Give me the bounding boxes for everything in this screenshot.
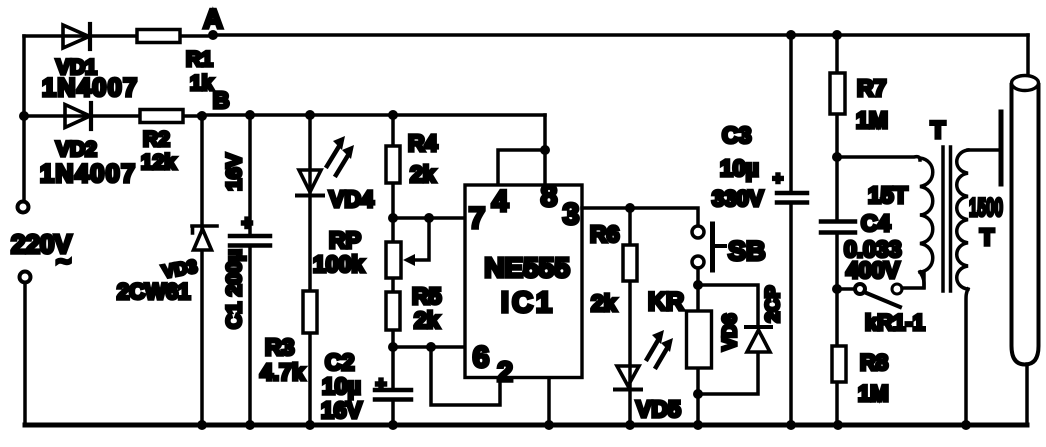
svg-text:R8: R8 <box>860 350 888 375</box>
relay contact kR1-1 <box>837 273 924 307</box>
svg-text:16V: 16V <box>223 153 246 190</box>
svg-text:10µ: 10µ <box>720 155 759 181</box>
junction dots B rail <box>245 110 398 120</box>
label 15T <box>868 182 908 208</box>
svg-text:330V: 330V <box>712 186 764 211</box>
wire second input line to VD2 <box>24 114 199 118</box>
label R3 <box>265 334 294 360</box>
junction pin3-R6 <box>625 203 635 213</box>
junction wiper tap <box>424 213 434 223</box>
svg-text:1M: 1M <box>856 107 888 133</box>
svg-text:15T: 15T <box>868 182 908 208</box>
diode VD6 <box>746 327 771 352</box>
junction C3 top <box>786 30 796 40</box>
potentiometer RP <box>386 242 401 278</box>
pin 2 label <box>497 356 513 387</box>
pushbutton SB contacts <box>692 226 704 268</box>
svg-text:1k: 1k <box>190 72 214 95</box>
svg-text:R5: R5 <box>412 283 442 309</box>
pin 6 label <box>473 341 490 374</box>
diode VD2 <box>65 103 91 129</box>
resistor R6 <box>623 245 637 281</box>
capacitor C1 rail wire <box>248 115 252 425</box>
svg-text:VD2: VD2 <box>56 138 97 161</box>
resistor R6 rail wire <box>628 208 632 425</box>
discharge tube bottom wire <box>1025 364 1029 425</box>
transformer T core <box>943 147 951 291</box>
node B rail wire <box>199 113 545 117</box>
label IC1 <box>501 287 555 319</box>
junction dots bottom rail <box>197 420 843 430</box>
svg-text:SB: SB <box>728 236 766 266</box>
LED VD4 <box>297 170 323 196</box>
resistor chain rail wire <box>391 115 395 347</box>
label 1500 <box>969 194 1003 222</box>
wire pin8 from node B <box>543 115 547 185</box>
label C1 200u rotated <box>223 249 246 329</box>
resistor R2 <box>140 110 183 123</box>
svg-text:C3: C3 <box>722 122 751 148</box>
label C3 plus <box>773 169 783 188</box>
svg-text:2k: 2k <box>591 290 617 316</box>
svg-text:1N4007: 1N4007 <box>40 160 137 188</box>
node A label <box>203 4 223 34</box>
svg-text:12k: 12k <box>141 151 176 174</box>
transformer T secondary bottom lead <box>966 289 968 425</box>
terminal lower 220V <box>20 272 31 283</box>
svg-text:C1 200µ: C1 200µ <box>223 249 246 329</box>
svg-text:C4: C4 <box>861 210 891 236</box>
svg-text:R4: R4 <box>408 130 438 156</box>
label R1 <box>186 48 213 71</box>
svg-text:1500: 1500 <box>969 194 1003 222</box>
svg-text:2k: 2k <box>410 161 436 187</box>
label 1k <box>190 72 214 95</box>
label VD2 <box>56 138 97 161</box>
wire lower terminal to bottom rail <box>23 283 27 425</box>
label 2k (R5) <box>414 307 440 333</box>
capacitor C3 rail wire <box>789 35 793 425</box>
svg-text:NE555: NE555 <box>484 252 570 283</box>
label C1 plus <box>242 213 253 233</box>
label R4 <box>408 130 438 156</box>
junction R4-RP <box>388 213 398 223</box>
VD4 light arrows <box>327 136 354 175</box>
label RP <box>329 227 361 253</box>
wire top rail to tube <box>1026 35 1030 76</box>
junction input split <box>19 111 29 121</box>
label 10u (C2) <box>322 373 361 399</box>
label 1M (R7) <box>856 107 888 133</box>
svg-text:2: 2 <box>497 356 513 387</box>
junction C4-R8-switch <box>832 284 842 294</box>
wire pin4 loop <box>498 150 545 185</box>
svg-text:1M: 1M <box>858 381 889 406</box>
resistor R7 rail wire <box>835 35 839 425</box>
node A top rail wire <box>213 33 1028 37</box>
svg-text:T: T <box>980 224 994 250</box>
label 330V <box>712 186 764 211</box>
wire SB to relay <box>696 268 700 285</box>
label NE555 <box>484 252 570 283</box>
label KR <box>648 288 684 316</box>
tube electrode bar <box>999 112 1004 184</box>
svg-text:3: 3 <box>563 198 580 231</box>
svg-text:2k: 2k <box>414 307 440 333</box>
LED VD4 rail wire <box>308 115 312 425</box>
label 400V <box>846 257 900 283</box>
svg-text:R3: R3 <box>265 334 294 360</box>
resistor R5 <box>386 292 400 330</box>
wire pin1 to ground rail <box>547 362 551 425</box>
svg-text:2CP: 2CP <box>763 285 784 322</box>
svg-text:A: A <box>203 4 223 34</box>
label R7 <box>857 75 886 101</box>
svg-text:100k: 100k <box>313 251 364 277</box>
label kR1-1 <box>865 310 925 335</box>
svg-text:1N4007: 1N4007 <box>42 74 139 102</box>
VD5 light arrows <box>647 330 673 367</box>
diode VD6 branch wire <box>698 285 758 394</box>
label 2CP rotated <box>763 285 784 322</box>
svg-text:+: + <box>242 213 253 233</box>
pushbutton SB actuator <box>713 224 726 270</box>
pin 8 label <box>541 180 558 213</box>
svg-text:6: 6 <box>473 341 490 374</box>
resistor R8 <box>832 346 846 382</box>
svg-text:VD5: VD5 <box>636 396 681 422</box>
svg-text:4: 4 <box>492 185 509 218</box>
svg-text:R2: R2 <box>143 128 170 151</box>
diode VD1 <box>63 24 90 49</box>
node A junction dot <box>208 30 218 40</box>
label VD1 <box>56 56 97 79</box>
label 16V rotated (C1) <box>223 153 246 190</box>
pin 3 label <box>563 198 580 231</box>
label VD4 <box>329 186 374 212</box>
svg-text:B: B <box>213 87 230 113</box>
label R8 <box>860 350 888 375</box>
transformer T primary bottom lead <box>920 272 924 287</box>
label R5 <box>412 283 442 309</box>
junction pin2 tap <box>426 342 436 352</box>
svg-text:C2: C2 <box>325 349 354 375</box>
capacitor C4 plates <box>821 222 855 233</box>
svg-text:KR: KR <box>648 288 684 316</box>
label VD3 <box>161 256 199 282</box>
junction R7 top <box>832 30 842 40</box>
wire top input line to VD1 <box>24 34 213 38</box>
node B junction dot <box>197 111 207 121</box>
label C4 <box>861 210 891 236</box>
pin 4 label <box>492 185 509 218</box>
svg-text:VD6: VD6 <box>720 314 741 351</box>
resistor R4 <box>386 146 400 183</box>
discharge tube body <box>1012 76 1039 365</box>
resistor R3 <box>303 291 317 333</box>
label SB <box>728 236 766 266</box>
svg-text:IC1: IC1 <box>501 287 555 319</box>
svg-text:T: T <box>931 117 946 144</box>
label R6 <box>590 221 619 247</box>
svg-text:10µ: 10µ <box>322 373 361 399</box>
junction pin4-pin8 <box>540 145 550 155</box>
wire pin3 output <box>582 208 698 226</box>
label C2 <box>325 349 354 375</box>
label C3 <box>722 122 751 148</box>
transformer T primary winding <box>920 158 933 272</box>
node B label <box>213 87 230 113</box>
svg-text:R1: R1 <box>186 48 213 71</box>
bottom rail wire <box>25 423 1027 428</box>
capacitor C1 plates <box>230 236 270 246</box>
svg-text:R6: R6 <box>590 221 619 247</box>
svg-text:16V: 16V <box>321 397 363 423</box>
svg-text:4.7k: 4.7k <box>260 359 305 385</box>
RP wiper arrow <box>403 218 429 266</box>
transformer T secondary winding <box>957 150 968 289</box>
junction R5-C2 <box>388 342 398 352</box>
label 12k <box>141 151 176 174</box>
label 10u (C3) <box>720 155 759 181</box>
resistor R7 <box>830 73 845 114</box>
label 2k (R6) <box>591 290 617 316</box>
label VD6 rotated <box>720 314 741 351</box>
junction R7-C4-primary <box>832 152 842 162</box>
label C2 plus <box>376 374 387 394</box>
label 4.7k <box>260 359 305 385</box>
label R2 <box>143 128 170 151</box>
label 100k <box>313 251 364 277</box>
zener VD3 2CW61 <box>192 226 217 250</box>
svg-text:2CW61: 2CW61 <box>117 279 190 304</box>
LED VD5 <box>615 366 641 390</box>
wire left vertical input <box>22 36 26 201</box>
label T secondary turns <box>980 224 994 250</box>
svg-text:+: + <box>376 374 387 394</box>
svg-text:~: ~ <box>56 246 71 276</box>
transformer T primary lead wire <box>837 157 920 160</box>
junction secondary-bottom rail <box>961 420 971 430</box>
svg-text:VD4: VD4 <box>329 186 374 212</box>
resistor R1 <box>137 30 180 43</box>
label 16V (C2) <box>321 397 363 423</box>
label 1N4007 (VD1) <box>42 74 139 102</box>
svg-text:R7: R7 <box>857 75 886 101</box>
capacitor C3 plates <box>777 193 807 203</box>
svg-text:RP: RP <box>329 227 361 253</box>
op-amp timer U1 NE555 box <box>465 185 582 378</box>
label 220V <box>11 229 72 276</box>
label 1M (R8) <box>858 381 889 406</box>
label 0.033 <box>844 236 902 262</box>
label T transformer <box>931 117 946 144</box>
svg-text:+: + <box>773 169 783 188</box>
wire pin2 detour <box>431 347 500 405</box>
svg-text:400V: 400V <box>846 257 900 283</box>
label 2k (R4) <box>410 161 436 187</box>
capacitor C2 wire <box>391 347 395 425</box>
wire pin7 <box>393 216 465 220</box>
wire pin6 <box>393 345 465 349</box>
svg-text:8: 8 <box>541 180 558 213</box>
label VD5 <box>636 396 681 422</box>
label 2CW61 <box>117 279 190 304</box>
terminal upper 220V <box>18 202 29 213</box>
transformer T secondary top lead <box>968 148 1000 152</box>
junction SB-KR-VD6 <box>693 280 703 290</box>
label 1N4007 (VD2) <box>40 160 137 188</box>
svg-text:7: 7 <box>469 202 486 235</box>
relay coil KR <box>687 285 712 425</box>
zener VD3 rail wire <box>200 116 204 425</box>
svg-text:kR1-1: kR1-1 <box>865 310 925 335</box>
junction KR bottom <box>693 389 703 399</box>
capacitor C2 plates <box>375 390 411 400</box>
pin 7 label <box>469 202 486 235</box>
